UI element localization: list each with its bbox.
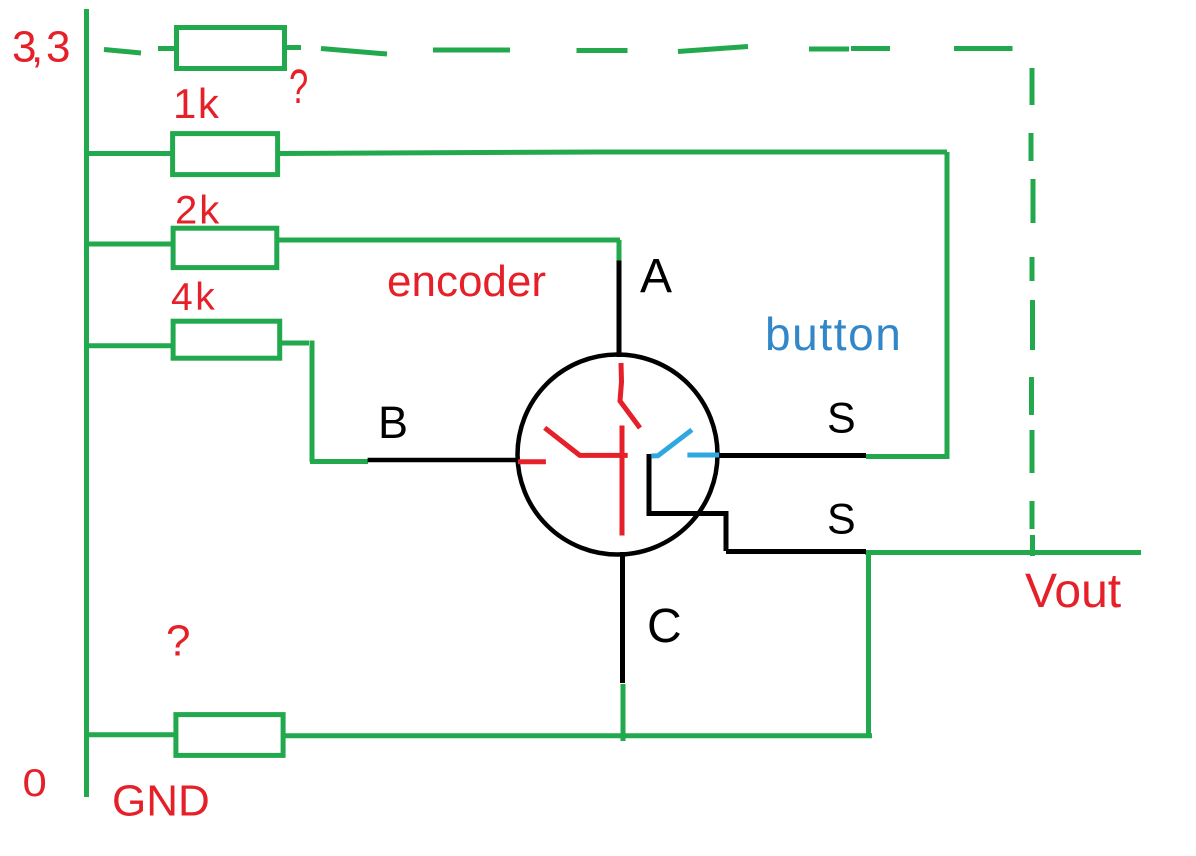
svg-text:encoder: encoder — [387, 257, 546, 306]
svg-text:1k: 1k — [173, 80, 220, 127]
svg-text:S: S — [827, 496, 856, 544]
svg-text:?: ? — [289, 59, 308, 113]
svg-text:C: C — [647, 600, 682, 653]
svg-text:3: 3 — [46, 23, 70, 72]
svg-text:2k: 2k — [175, 189, 221, 233]
svg-text:button: button — [765, 308, 903, 360]
svg-text:GND: GND — [112, 777, 210, 826]
svg-text:S: S — [827, 395, 856, 443]
svg-text:4k: 4k — [171, 276, 217, 319]
svg-text:,: , — [31, 23, 43, 72]
svg-text:?: ? — [166, 617, 190, 666]
svg-text:Vout: Vout — [1025, 565, 1121, 618]
svg-text:A: A — [640, 250, 672, 303]
svg-text:B: B — [378, 397, 408, 448]
svg-text:0: 0 — [23, 761, 47, 804]
